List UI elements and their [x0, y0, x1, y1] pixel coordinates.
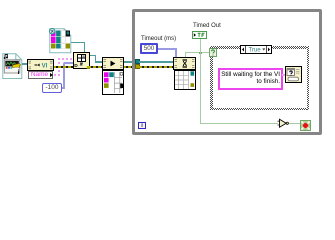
Start Asynchronous Call node: connector-pane body [102, 70, 124, 95]
wire: green boolean from indicator down [200, 39, 201, 53]
wire: green bottom horizontal to NOT gate [200, 123, 278, 124]
svg-text:D: D [74, 63, 78, 69]
svg-text:True: True [249, 48, 262, 54]
One Button Dialog node [285, 66, 302, 83]
Wait On Asynchronous Call node: header with hourglass [173, 57, 196, 70]
case structure checkered border [210, 46, 309, 49]
junction dot [199, 52, 202, 55]
static VI reference 2 (top document icon, strictly typed) [49, 28, 72, 54]
loop conditional terminal (stop if true) [300, 120, 311, 131]
loop tunnel: error cluster [135, 64, 140, 69]
loop iteration terminal (i) [138, 122, 146, 129]
Open VI Reference node [27, 59, 54, 71]
node A: Open VI Reference helper (grid + hand icon) [73, 52, 90, 69]
wire: teal refnum main run [90, 55, 96, 56]
wire: teal inside loop to Wait node [139, 61, 174, 63]
wire: pink string stub to dialog [282, 74, 285, 76]
while loop border [132, 9, 322, 135]
string constant: Still waiting... [218, 68, 283, 90]
label: Timeout (ms) [141, 35, 201, 44]
wire: green NOT gate to stop terminal [289, 123, 300, 124]
wire: green long vertical down [200, 52, 201, 124]
wire: teal stub from static ref to Open VI Reference [22, 63, 28, 65]
numeric constant: -100 [42, 83, 62, 93]
wire: olive inside loop to Wait node [139, 66, 174, 68]
NOT gate [277, 118, 290, 129]
wire: string pink from Name up into node A [54, 74, 59, 76]
boolean indicator: Timed Out terminal [192, 31, 207, 39]
wire: green down to Wait node top [185, 52, 186, 57]
wire: green horizontal to case selector [185, 52, 210, 53]
Start Asynchronous Call node: header with play arrow [102, 57, 124, 70]
loop tunnel: teal refnum [135, 59, 140, 64]
label: Timed Out [193, 22, 243, 31]
string constant: Name [28, 71, 53, 79]
static VI reference (left document icon) [2, 52, 25, 80]
svg-text:VI: VI [42, 63, 48, 69]
wire: int32 lavender from -100 up into node A [62, 87, 65, 89]
numeric constant: 500 [140, 43, 158, 54]
case selector terminal (?) [209, 48, 217, 57]
wire: int lavender 500 to Wait node [158, 48, 176, 50]
case selector label [240, 45, 272, 54]
Wait On Asynchronous Call node: connector-pane body [174, 70, 196, 90]
wire: error cluster (olive dashed) main run [53, 66, 174, 68]
wire: VI refnum teal from static ref 2 down into node A [70, 42, 85, 43]
